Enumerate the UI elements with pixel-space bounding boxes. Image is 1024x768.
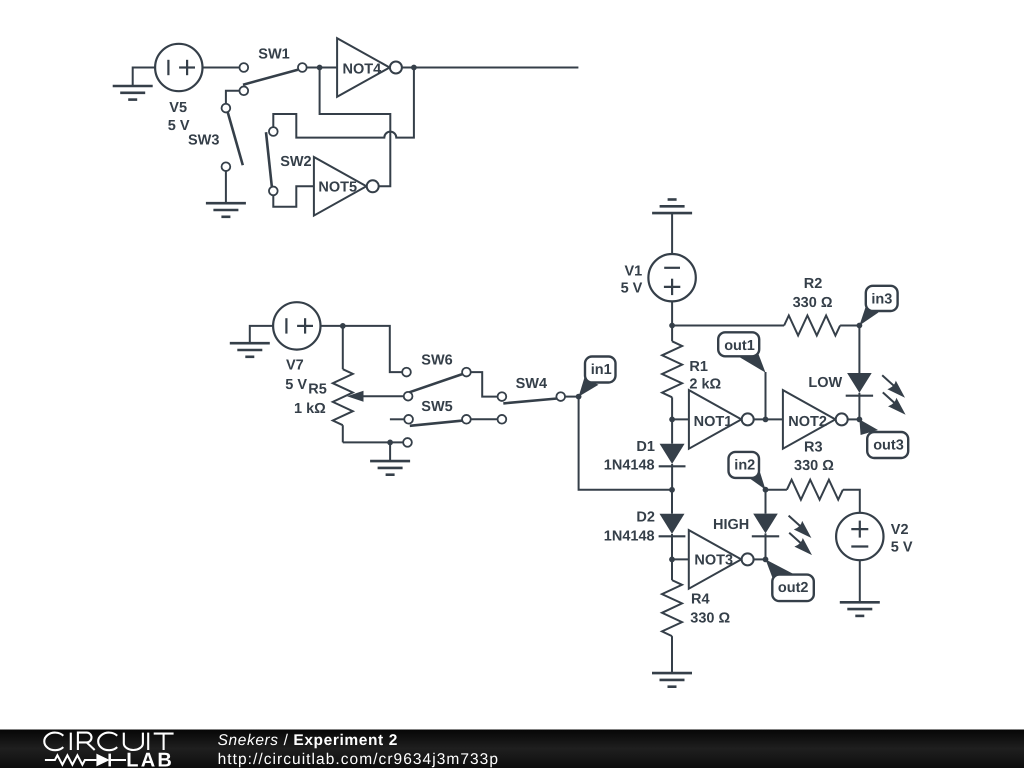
node V1 output junction [669,323,675,329]
switch SW1 [239,63,306,95]
wire junction to R2 [672,325,784,327]
svg-text:SW4: SW4 [516,376,547,392]
wire NOT1 output to NOT2 input [754,418,783,420]
svg-text:R4: R4 [691,591,710,607]
wire R5 bottom to SW5 throw2 [343,441,403,443]
wire SW4 common to node in1 [565,396,579,398]
CircuitLab logo CIRCUIT wordmark [44,733,173,751]
wire R2 to node in3 [840,325,859,327]
op-amp buffer NOT2 [783,390,848,449]
wire V5 minus to ground [133,68,155,87]
svg-text:R2: R2 [804,276,823,292]
svg-text:SW3: SW3 [188,133,219,149]
potentiometer R5 [333,369,353,425]
svg-text:NOT3: NOT3 [694,553,733,569]
LED HIGH arrows [789,516,801,527]
switch SW5 [403,415,471,447]
wire V5 plus to SW1 [203,67,240,69]
flag out3 [859,419,908,458]
svg-text:in2: in2 [734,458,755,474]
svg-text:LOW: LOW [808,375,842,391]
ground at SW3 [206,203,246,217]
svg-text:NOT5: NOT5 [318,180,357,196]
wire R1 to NOT1 input [671,397,673,419]
svg-text:SW1: SW1 [258,46,289,62]
node NOT4 input junction [317,65,323,71]
wire in1 down to diode ladder [579,397,672,490]
wire junction to R4 [671,559,673,580]
wire R5 bottom [342,425,344,442]
flag out1 [718,332,765,372]
svg-text:out2: out2 [778,580,809,596]
node D1 cathode junction [669,487,675,493]
svg-text:out1: out1 [724,338,755,354]
svg-text:1 kΩ: 1 kΩ [294,401,326,417]
svg-text:5 V: 5 V [168,118,190,134]
node in2 junction [763,487,769,493]
svg-text:NOT2: NOT2 [788,414,827,430]
svg-text:out3: out3 [873,438,904,454]
wire junction to NOT1 [672,418,689,420]
flag in3 [859,286,897,326]
diode D2 [671,490,673,514]
flag in2 [729,452,766,490]
node in3 junction [857,323,863,329]
svg-text:330 Ω: 330 Ω [690,611,730,627]
svg-text:5 V: 5 V [621,281,643,297]
svg-text:1N4148: 1N4148 [604,528,655,544]
node R5 top junction [340,323,346,329]
svg-text:5 V: 5 V [891,540,913,556]
svg-text:R3: R3 [804,440,823,456]
node in1 junction [576,394,582,400]
resistor R4 [662,580,682,636]
diode D1 [671,419,673,443]
LED LOW arrows [882,375,894,386]
svg-text:NOT4: NOT4 [343,61,382,77]
wire in3 down to LED LOW [858,326,860,374]
svg-text:5 V: 5 V [285,377,307,393]
svg-text:Snekers / Experiment 2: Snekers / Experiment 2 [218,732,398,749]
switch SW3 [222,104,243,171]
flag in1 [579,357,616,397]
flag out2 [766,559,814,601]
LED HIGH [765,490,767,514]
footer bar [0,730,1024,768]
svg-text:http://circuitlab.com/cr9634j3: http://circuitlab.com/cr9634j3m733p [218,751,499,768]
op-amp buffer NOT5 [314,157,379,216]
svg-text:R5: R5 [308,381,327,397]
wire SW5 common to SW4 throw2 [471,418,498,420]
wire SW1 throw2 to SW3 [226,91,240,104]
svg-text:2 kΩ: 2 kΩ [689,376,721,392]
node NOT3 output junction [763,557,769,563]
wire NOT2 output to LED junction [848,418,860,420]
node NOT1 output junction [763,417,769,423]
svg-text:330 Ω: 330 Ω [793,295,833,311]
wire in2 to R3 [766,489,787,491]
ground at R4 [652,673,692,687]
svg-text:V7: V7 [286,358,304,374]
switch SW6 [402,368,471,401]
voltage source V1 [648,254,695,301]
wire R4 to ground [671,636,673,673]
wiper wire of R5 [363,395,404,397]
wire SW2 bottom to NOT5 input [273,186,314,206]
svg-text:HIGH: HIGH [713,517,749,533]
wire SW6 common to SW4 [471,372,498,397]
wire junction to NOT3 [672,558,689,560]
wire V1 plus down to R1 [671,301,673,341]
wiper arrow of R5 [347,391,364,402]
voltage source V7 [273,302,320,349]
node NOT1 input junction [669,417,675,423]
voltage source V5 [155,44,202,91]
svg-text:in3: in3 [871,291,892,307]
resistor R1 [662,341,682,397]
svg-text:SW6: SW6 [421,352,452,368]
wire junction to R5 [342,326,344,369]
wire ground to V1 [671,213,673,254]
node D2 cathode junction [669,557,675,563]
wire NOT5 output feedback to NOT4 input [320,68,391,187]
voltage source V2 [836,513,883,560]
svg-text:V2: V2 [891,522,909,538]
wire NOT4 output long [402,67,579,69]
svg-text:in1: in1 [591,362,612,378]
wire NOT3 output to LED HIGH junction [754,558,766,560]
svg-text:1N4148: 1N4148 [604,458,655,474]
wire SW3 bottom to ground [225,171,227,203]
svg-text:D2: D2 [636,510,655,526]
resistor R3 [787,480,843,500]
svg-text:SW2: SW2 [280,154,311,170]
ground at R5 [370,461,410,475]
wire SW1 common to NOT4 input [307,67,337,69]
op-amp buffer NOT1 [689,390,754,449]
svg-text:V5: V5 [169,100,187,116]
svg-text:V1: V1 [625,263,643,279]
wire V2 minus to ground [859,560,861,602]
wire V7 plus to SW6 [321,326,403,372]
CircuitLab logo resistor-diode glyph [45,754,126,767]
wire R3 to V2 [843,490,860,513]
switch SW4 [498,392,566,423]
LED LOW [847,373,872,393]
resistor R2 [784,316,840,336]
svg-text:SW5: SW5 [421,399,452,415]
node NOT4 output junction [411,65,417,71]
wire out1 riser [765,372,767,419]
wire SW5 stub [390,418,404,420]
ground at V7 [230,343,270,357]
wire V7 minus to ground [250,326,273,343]
svg-text:LAB: LAB [126,749,174,768]
node LED LOW cathode junction [857,417,863,423]
ground at V2 [840,602,880,616]
svg-text:NOT1: NOT1 [694,414,733,430]
wire junction to ground [389,442,391,461]
node R5 bottom junction [387,440,393,446]
op-amp buffer NOT4 [337,38,402,97]
op-amp buffer NOT3 [689,530,754,589]
ground above V1 [652,200,692,214]
svg-text:R1: R1 [689,359,708,375]
wire NOT4 output down to SW2 with hop [273,68,414,138]
ground at V5 [113,86,153,100]
switch SW2 [266,127,278,195]
svg-text:D1: D1 [636,439,655,455]
svg-text:330 Ω: 330 Ω [794,458,834,474]
